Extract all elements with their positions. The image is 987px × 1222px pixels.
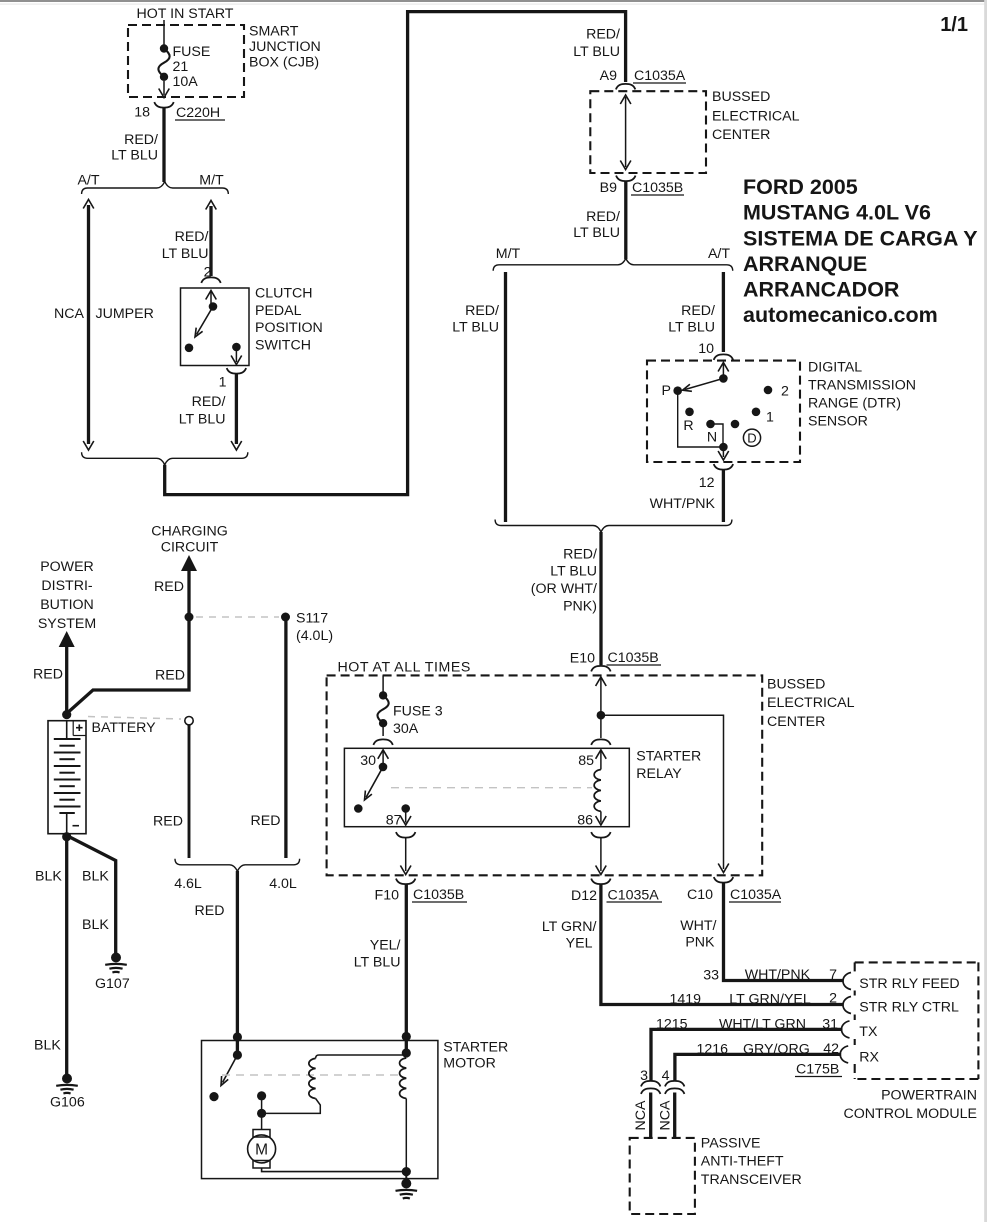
svg-text:FUSE: FUSE bbox=[173, 44, 211, 60]
starter relay box bbox=[344, 748, 629, 826]
svg-text:RED/: RED/ bbox=[586, 27, 620, 43]
power distribution arrow bbox=[59, 631, 75, 712]
wire pin 87 to F10 bbox=[400, 838, 411, 875]
connector relay pin 87 bbox=[396, 832, 415, 838]
svg-text:LT BLU: LT BLU bbox=[668, 320, 715, 336]
wire B9 to split 2 bbox=[624, 182, 627, 260]
svg-text:BLK: BLK bbox=[34, 1038, 61, 1054]
svg-text:RED/: RED/ bbox=[681, 303, 715, 319]
label NCA (pin 3) bbox=[633, 1100, 649, 1130]
svg-text:STR RLY FEED: STR RLY FEED bbox=[859, 976, 959, 992]
wire label WHT/LT GRN bbox=[719, 1017, 806, 1033]
connector pin 3 bbox=[641, 1081, 660, 1094]
label YEL/LT BLU bbox=[354, 938, 401, 971]
svg-text:DISTRI-: DISTRI- bbox=[41, 578, 93, 594]
label FUSE 21 10A bbox=[173, 44, 211, 90]
svg-text:STR RLY CTRL: STR RLY CTRL bbox=[859, 1000, 959, 1016]
clutch switch pin 2 arrow bbox=[206, 291, 217, 306]
split brace A/T-M/T bbox=[82, 182, 229, 195]
wire 4.0L from S117 bbox=[284, 621, 287, 858]
connector PCM pin 2 bbox=[843, 997, 851, 1014]
label TX bbox=[859, 1024, 878, 1040]
svg-text:WHT/: WHT/ bbox=[680, 918, 716, 934]
digital transmission range sensor box bbox=[647, 361, 800, 462]
title text SISTEMA DE CARGA Y bbox=[743, 227, 978, 251]
wire to fuse 3 bbox=[382, 675, 384, 692]
svg-text:(OR WHT/: (OR WHT/ bbox=[531, 581, 597, 597]
motor right coil bbox=[400, 1058, 407, 1099]
pin label 18 bbox=[134, 105, 150, 121]
label POWER DISTRIBUTION SYSTEM bbox=[38, 559, 96, 632]
label RED (to starter) bbox=[195, 903, 225, 919]
svg-text:1: 1 bbox=[766, 410, 774, 426]
svg-text:C10: C10 bbox=[687, 887, 713, 903]
smart junction box (CJB) dashed box bbox=[128, 25, 244, 97]
wire E10 node to C10 bbox=[601, 715, 729, 872]
svg-text:MUSTANG 4.0L V6: MUSTANG 4.0L V6 bbox=[743, 201, 931, 225]
motor switch arm bbox=[221, 1055, 237, 1086]
svg-text:2: 2 bbox=[781, 384, 789, 400]
wire clutch pin 1 down bbox=[231, 374, 242, 450]
merge brace 4.6L-4.0L bbox=[175, 859, 300, 872]
connector DTR pin 12 bbox=[714, 464, 733, 470]
label RED (charging) bbox=[154, 579, 184, 595]
svg-text:18: 18 bbox=[134, 105, 150, 121]
motor dashed link bbox=[222, 1074, 400, 1076]
svg-text:BUSSED: BUSSED bbox=[767, 677, 825, 693]
bussed electrical center box 2 bbox=[327, 675, 763, 875]
ground G107 bbox=[105, 953, 127, 973]
wire merge to E10 bbox=[599, 532, 602, 665]
svg-text:MOTOR: MOTOR bbox=[443, 1056, 496, 1072]
label STARTER RELAY bbox=[636, 749, 701, 782]
label 4.6L bbox=[174, 876, 202, 892]
svg-text:SYSTEM: SYSTEM bbox=[38, 616, 96, 632]
svg-text:SENSOR: SENSOR bbox=[808, 414, 868, 430]
DTR contact R bbox=[685, 408, 694, 417]
clutch switch common contact bbox=[209, 302, 218, 311]
svg-text:LT BLU: LT BLU bbox=[573, 44, 620, 60]
battery plates bbox=[54, 739, 81, 813]
label HOT AT ALL TIMES bbox=[338, 660, 471, 676]
battery minus sign bbox=[73, 825, 80, 827]
wire TX bbox=[651, 1029, 843, 1081]
DTR wire P to pin 12 node bbox=[678, 391, 724, 447]
svg-text:A/T: A/T bbox=[708, 246, 730, 262]
connector name C1035B F10 bbox=[412, 887, 467, 903]
wire brush to motor bbox=[261, 1113, 263, 1129]
connector name C1035A top bbox=[633, 68, 686, 84]
svg-text:A/T: A/T bbox=[77, 173, 99, 189]
relay switch arm bbox=[365, 767, 384, 800]
pin label 30 bbox=[360, 753, 376, 769]
svg-text:RED: RED bbox=[155, 668, 185, 684]
svg-text:NCA: NCA bbox=[633, 1100, 649, 1130]
svg-text:D12: D12 bbox=[571, 888, 597, 904]
svg-text:M: M bbox=[255, 1142, 268, 1159]
svg-text:LT BLU: LT BLU bbox=[550, 564, 597, 580]
relay pin 30 arrow bbox=[378, 750, 389, 765]
DTR circled D bbox=[743, 429, 760, 446]
svg-text:R: R bbox=[683, 418, 693, 434]
connector name C220H bbox=[175, 105, 225, 121]
battery positive node bbox=[62, 710, 71, 719]
label R bbox=[683, 418, 693, 434]
pin label C10 bbox=[687, 887, 713, 903]
svg-text:BLK: BLK bbox=[35, 869, 62, 885]
label NCA (pin 4) bbox=[658, 1100, 674, 1130]
svg-text:C1035B: C1035B bbox=[413, 887, 464, 903]
svg-text:WHT/PNK: WHT/PNK bbox=[745, 967, 811, 983]
svg-text:ELECTRICAL: ELECTRICAL bbox=[767, 695, 855, 711]
svg-text:RELAY: RELAY bbox=[636, 766, 682, 782]
label HOT IN START bbox=[137, 6, 234, 22]
svg-text:SISTEMA DE CARGA Y: SISTEMA DE CARGA Y bbox=[743, 227, 978, 251]
svg-text:2: 2 bbox=[829, 991, 837, 1007]
svg-text:BUSSED: BUSSED bbox=[712, 89, 770, 105]
wire M/T to clutch pin 2 bbox=[206, 201, 217, 277]
svg-text:WHT/PNK: WHT/PNK bbox=[650, 496, 716, 512]
connector pin 2 clutch bbox=[201, 277, 220, 283]
DTR contact N bbox=[706, 420, 715, 429]
svg-text:PNK): PNK) bbox=[563, 599, 597, 615]
page border top strip bbox=[0, 0, 987, 5]
connector C10 bbox=[714, 877, 733, 883]
DTR common node bbox=[719, 374, 728, 383]
svg-text:HOT AT ALL TIMES: HOT AT ALL TIMES bbox=[338, 660, 471, 676]
svg-text:BOX (CJB): BOX (CJB) bbox=[249, 55, 319, 71]
motor M armature bbox=[248, 1130, 276, 1169]
ground starter motor bbox=[396, 1179, 418, 1199]
wire NCA jumper bbox=[83, 200, 94, 451]
svg-text:42: 42 bbox=[823, 1041, 839, 1057]
motor switch common bbox=[233, 1050, 242, 1059]
label 2 (DTR) bbox=[781, 384, 789, 400]
label RED (4.6L) bbox=[153, 814, 183, 830]
svg-text:CENTER: CENTER bbox=[712, 127, 770, 143]
label RX bbox=[859, 1050, 879, 1066]
label NCA bbox=[54, 306, 84, 322]
svg-text:87: 87 bbox=[386, 813, 402, 829]
svg-text:A9: A9 bbox=[600, 68, 617, 84]
label BUSSED ELECTRICAL CENTER 2 bbox=[767, 677, 855, 731]
svg-text:FORD 2005: FORD 2005 bbox=[743, 175, 858, 199]
relay contact left bbox=[354, 804, 363, 813]
svg-text:BLK: BLK bbox=[82, 869, 109, 885]
charging circuit arrow bbox=[181, 555, 197, 614]
label RED (power dist) bbox=[33, 667, 63, 683]
4.6L tap circle bbox=[185, 717, 193, 725]
svg-text:F10: F10 bbox=[375, 888, 400, 904]
label RED/LT BLU (clutch out) bbox=[179, 394, 226, 428]
svg-text:TRANSMISSION: TRANSMISSION bbox=[808, 378, 916, 394]
motor brush node lower bbox=[257, 1109, 266, 1118]
svg-text:30: 30 bbox=[360, 753, 376, 769]
circuit number 1215 bbox=[656, 1017, 688, 1033]
svg-text:1215: 1215 bbox=[656, 1017, 688, 1033]
connector PCM pin 31 bbox=[842, 1021, 850, 1038]
connector relay pin 30 bbox=[373, 739, 392, 745]
svg-text:PASSIVE: PASSIVE bbox=[701, 1136, 761, 1152]
wire D12 to PCM pin 2 bbox=[601, 885, 844, 1005]
pin label 12 bbox=[699, 475, 715, 491]
label FUSE 3 30A bbox=[393, 704, 443, 738]
pin label 2 (PCM) bbox=[829, 991, 837, 1007]
wire fuse to pin 18 bbox=[159, 81, 170, 98]
E10 arrow into BEC2 bbox=[596, 677, 607, 713]
junction node above motor (right) bbox=[402, 1032, 411, 1041]
svg-text:RED/: RED/ bbox=[465, 303, 499, 319]
svg-text:RED: RED bbox=[33, 667, 63, 683]
svg-text:33: 33 bbox=[703, 968, 719, 984]
connector pin 1 clutch bbox=[227, 368, 246, 374]
wire BLK to G106 bbox=[65, 837, 68, 1074]
svg-text:C1035B: C1035B bbox=[608, 650, 659, 666]
bussed electrical center box 1 bbox=[590, 91, 706, 173]
svg-text:GRY/ORG: GRY/ORG bbox=[743, 1042, 810, 1058]
wire hot-in-start to fuse bbox=[163, 20, 165, 45]
svg-text:CENTER: CENTER bbox=[767, 714, 825, 730]
page border right strip bbox=[984, 0, 987, 1222]
title text ARRANCADOR bbox=[743, 278, 900, 302]
DTR pin 12 arrow bbox=[718, 447, 729, 460]
label BATTERY bbox=[92, 720, 157, 736]
connector F10 bbox=[396, 879, 415, 885]
connector relay pin 85 bbox=[591, 739, 610, 745]
relay common contact bbox=[379, 763, 388, 772]
motor switch contact bbox=[209, 1092, 218, 1101]
svg-text:TRANSCEIVER: TRANSCEIVER bbox=[701, 1172, 802, 1188]
pin label B9 bbox=[600, 180, 617, 196]
svg-text:WHT/LT GRN: WHT/LT GRN bbox=[719, 1017, 806, 1033]
svg-text:(4.0L): (4.0L) bbox=[296, 628, 333, 644]
label RED/LT BLU (B9) bbox=[573, 209, 620, 241]
connector D12 bbox=[591, 879, 610, 885]
label POWERTRAIN CONTROL MODULE bbox=[844, 1088, 977, 1123]
svg-text:CHARGING: CHARGING bbox=[151, 524, 227, 540]
svg-text:C220H: C220H bbox=[176, 105, 220, 121]
svg-text:TX: TX bbox=[859, 1024, 878, 1040]
svg-text:30A: 30A bbox=[393, 721, 419, 737]
wire NCA 3 bbox=[649, 1093, 652, 1138]
motor center coil bbox=[309, 1058, 316, 1098]
clutch switch pin 1 arrow bbox=[231, 349, 242, 365]
DTR selector arm to P bbox=[683, 378, 724, 391]
label M/T 2 bbox=[496, 246, 521, 262]
svg-text:G106: G106 bbox=[50, 1095, 85, 1111]
svg-text:SWITCH: SWITCH bbox=[255, 337, 311, 353]
svg-text:4.0L: 4.0L bbox=[269, 876, 297, 892]
connector name C1035B E10 bbox=[607, 650, 662, 666]
connector name C1035A C10 bbox=[729, 887, 782, 903]
svg-text:C1035B: C1035B bbox=[632, 180, 683, 196]
battery plus terminal box bbox=[73, 721, 86, 736]
connector C220H bbox=[154, 102, 173, 108]
fuse F3 bbox=[377, 691, 388, 727]
battery box bbox=[48, 721, 86, 834]
svg-text:1216: 1216 bbox=[696, 1042, 728, 1058]
wire label GRY/ORG bbox=[743, 1042, 810, 1058]
splice S117 bbox=[281, 613, 290, 622]
wire merged RED to starter motor bbox=[236, 871, 239, 1053]
wire 4.6L bbox=[188, 725, 191, 858]
clutch switch contact right bbox=[232, 343, 241, 352]
split brace M/T-A/T 2 bbox=[493, 258, 733, 271]
label RED/LT BLU (OR WHT/PNK) bbox=[531, 547, 597, 615]
motor coil to brush link bbox=[262, 1099, 321, 1114]
relay contact 87 bbox=[401, 804, 410, 813]
svg-text:RED/: RED/ bbox=[586, 209, 620, 225]
powertrain control module dashed box bbox=[855, 962, 979, 1079]
label WHT/PNK (DTR out) bbox=[650, 496, 716, 512]
clutch switch arm bbox=[195, 307, 213, 338]
label 4.0L bbox=[269, 876, 297, 892]
label RED (4.0L) bbox=[251, 813, 281, 829]
ground G106 bbox=[56, 1074, 78, 1094]
clutch pedal position switch box bbox=[181, 288, 250, 366]
clutch switch contact left bbox=[185, 344, 194, 353]
connector name C1035A D12 bbox=[607, 888, 663, 904]
merge brace below clutch bbox=[82, 452, 248, 465]
battery top stub bbox=[66, 721, 68, 739]
label LT GRN/YEL (D12) bbox=[542, 919, 597, 952]
svg-text:SMART: SMART bbox=[249, 24, 299, 40]
svg-text:LT GRN/YEL: LT GRN/YEL bbox=[729, 992, 811, 1008]
svg-text:85: 85 bbox=[578, 753, 594, 769]
svg-text:86: 86 bbox=[577, 813, 593, 829]
label BLK (right) bbox=[82, 869, 109, 885]
svg-text:ARRANCADOR: ARRANCADOR bbox=[743, 278, 900, 302]
wire DTR pin 12 down bbox=[722, 470, 725, 522]
svg-text:10A: 10A bbox=[173, 74, 199, 90]
motor right coil down bbox=[405, 1099, 407, 1172]
relay pin 85 arrow bbox=[596, 750, 607, 770]
svg-text:1: 1 bbox=[219, 375, 227, 391]
svg-text:POWER: POWER bbox=[40, 559, 94, 575]
label BLK (left) bbox=[35, 869, 62, 885]
connector B9 bbox=[616, 176, 635, 182]
motor right coil node bbox=[402, 1048, 411, 1057]
pin label 3 bbox=[640, 1068, 648, 1084]
label WHT/PNK (C10) bbox=[680, 918, 716, 951]
DTR contact 2 bbox=[764, 386, 773, 395]
svg-text:G107: G107 bbox=[95, 976, 130, 992]
pin label D12 bbox=[571, 888, 597, 904]
wire pin 86 to D12 bbox=[596, 838, 607, 875]
svg-text:RED/: RED/ bbox=[563, 547, 597, 563]
label DIGITAL TRANSMISSION RANGE (DTR) SENSOR bbox=[808, 360, 916, 430]
junction node above motor (left) bbox=[233, 1032, 242, 1041]
svg-text:M/T: M/T bbox=[199, 173, 224, 189]
label SMART JUNCTION BOX (CJB) bbox=[249, 24, 321, 71]
motor ground node bbox=[402, 1167, 411, 1176]
wire label WHT/PNK (pin 7) bbox=[745, 967, 811, 983]
fuse F21 bbox=[158, 44, 169, 81]
label STR RLY CTRL bbox=[859, 1000, 959, 1016]
pin label 87 bbox=[386, 813, 402, 829]
connector PCM pin 42 bbox=[840, 1046, 848, 1063]
svg-text:RED: RED bbox=[195, 903, 225, 919]
svg-text:POSITION: POSITION bbox=[255, 320, 323, 336]
svg-text:BUTION: BUTION bbox=[40, 597, 94, 613]
passive anti-theft transceiver dashed box bbox=[630, 1138, 695, 1214]
wire battery to charging node bbox=[67, 619, 189, 714]
starter motor box bbox=[202, 1041, 438, 1179]
svg-text:LT BLU: LT BLU bbox=[162, 246, 209, 262]
svg-text:1419: 1419 bbox=[669, 992, 701, 1008]
title text automecanico.com bbox=[743, 303, 938, 327]
pin label A9 bbox=[600, 68, 617, 84]
relay pin 86 arrow bbox=[596, 811, 607, 825]
circuit number 1216 bbox=[696, 1042, 728, 1058]
label STARTER MOTOR bbox=[443, 1040, 508, 1072]
DTR pin 10 arrow bbox=[718, 363, 729, 378]
connector PCM pin 7 bbox=[843, 973, 851, 990]
pin label 1 bbox=[219, 375, 227, 391]
svg-text:C1035A: C1035A bbox=[608, 888, 660, 904]
svg-text:YEL: YEL bbox=[566, 936, 593, 952]
wire M/T branch long bbox=[504, 272, 507, 522]
battery plus sign bbox=[76, 724, 83, 731]
svg-text:PEDAL: PEDAL bbox=[255, 303, 302, 319]
svg-text:E10: E10 bbox=[570, 651, 595, 667]
svg-text:NCA: NCA bbox=[54, 306, 84, 322]
label G107 bbox=[95, 976, 130, 992]
svg-text:12: 12 bbox=[699, 475, 715, 491]
pin label 31 bbox=[822, 1017, 838, 1033]
svg-text:4.6L: 4.6L bbox=[174, 876, 202, 892]
label RED/LT BLU (A9) bbox=[573, 27, 620, 61]
wire E10 node to pin 85 bbox=[600, 715, 602, 738]
svg-text:10: 10 bbox=[698, 341, 714, 357]
wire main loop to top right bbox=[165, 12, 626, 495]
wire inside BEC1 bbox=[620, 95, 631, 170]
wire label LT GRN/YEL (pin 2) bbox=[729, 992, 811, 1008]
splice S117 node left bbox=[185, 613, 194, 622]
pin label E10 bbox=[570, 651, 595, 667]
title text ARRANQUE bbox=[743, 252, 867, 276]
wire BLK to G107 bbox=[67, 836, 116, 954]
circuit number 33 bbox=[703, 968, 719, 984]
wire motor to ground bus bbox=[262, 1168, 407, 1172]
pin label 2 bbox=[204, 265, 212, 281]
wire fuse 3 to relay pin 30 bbox=[382, 727, 384, 736]
pin label 10 bbox=[698, 341, 714, 357]
label CHARGING CIRCUIT bbox=[151, 524, 227, 556]
motor coil top link bbox=[316, 1055, 407, 1058]
label P bbox=[662, 383, 671, 399]
svg-text:CIRCUIT: CIRCUIT bbox=[161, 540, 219, 556]
DTR pin 12 node bbox=[719, 443, 728, 452]
wire motor to ground bbox=[405, 1172, 407, 1180]
svg-text:HOT IN START: HOT IN START bbox=[137, 6, 234, 22]
svg-text:RX: RX bbox=[859, 1050, 879, 1066]
dashed link battery to 4.6L tap bbox=[88, 717, 181, 720]
label 1 (DTR) bbox=[766, 410, 774, 426]
connector relay pin 86 bbox=[591, 832, 610, 838]
label RED/LT BLU (clutch in) bbox=[162, 229, 209, 262]
dashed link to S117 bbox=[196, 616, 279, 618]
label RED/LT BLU (fuse out) bbox=[111, 132, 158, 164]
svg-text:ARRANQUE: ARRANQUE bbox=[743, 252, 867, 276]
svg-text:STARTER: STARTER bbox=[636, 749, 701, 765]
merge brace to E10 bbox=[495, 520, 732, 533]
svg-text:M/T: M/T bbox=[496, 246, 521, 262]
svg-text:DIGITAL: DIGITAL bbox=[808, 360, 862, 376]
svg-text:NCA: NCA bbox=[658, 1100, 674, 1130]
relay coil bbox=[594, 770, 601, 812]
label CLUTCH PEDAL POSITION SWITCH bbox=[255, 286, 323, 354]
